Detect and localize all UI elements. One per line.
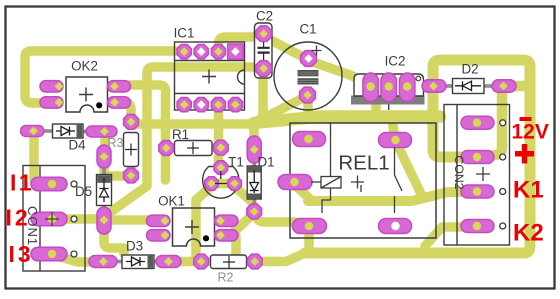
- svg-text:R2: R2: [218, 271, 234, 285]
- REL1 pad coil2: [278, 175, 312, 190]
- wire top-left L to IC1 pad1: [25, 51, 180, 103]
- wire OK2-TR elbow to R1 left vertical: [130, 85, 166, 180]
- wire IC2 tap stub: [371, 98, 381, 117]
- CON2 pad plus hole: [473, 153, 481, 161]
- OK2 pad5 hole: [110, 98, 119, 107]
- D1 band bottom: [248, 194, 261, 199]
- IC1 body: [175, 42, 245, 110]
- gray leads: [42, 86, 498, 262]
- T1 pad B hole: [217, 163, 226, 172]
- IC2 pad1 hole: [366, 82, 374, 90]
- R2 plus: [223, 256, 235, 268]
- C1 pad minus hole: [303, 91, 312, 100]
- OK2 pad6: [108, 81, 131, 92]
- T1 pad B: [214, 161, 228, 175]
- OK2 pad5: [108, 97, 131, 108]
- resistor R2 body: [211, 255, 247, 269]
- svg-text:CON2: CON2: [452, 155, 466, 189]
- connector CON2 box: [444, 105, 510, 246]
- relay REL1 box: [290, 123, 436, 238]
- svg-text:I2: I2: [6, 205, 31, 231]
- D1 pad top: [247, 136, 261, 163]
- CON2 mount holes: [500, 120, 506, 229]
- D3 pad anode: [89, 256, 117, 268]
- CON1 pad I3: [31, 247, 67, 261]
- optocoupler OK2 body: [66, 77, 108, 112]
- diode D5 body: [97, 175, 112, 206]
- REL1 pad coil2 hole: [290, 178, 298, 186]
- cathode bands: [77, 125, 261, 268]
- REL1 pad coil1: [293, 132, 326, 147]
- C2 capacitor symbol: [258, 48, 270, 53]
- OK1 pad6 hole: [216, 216, 225, 225]
- REL1 pad common: [379, 133, 412, 148]
- IC1 pad7: [211, 98, 225, 112]
- wire T1 left down through OK1 to R2 left: [196, 186, 212, 258]
- wire D4 left down to I1 pad: [34, 133, 48, 184]
- svg-text:D2: D2: [461, 62, 478, 77]
- IC2 pad3 hole: [403, 82, 411, 90]
- wire D3 right to R2 left: [172, 257, 198, 267]
- diode D4 body: [53, 124, 84, 138]
- D2 pad cathode: [492, 80, 516, 93]
- CON2 pad K2: [461, 220, 494, 233]
- C1 plus: [312, 46, 322, 56]
- D4 symbol: [56, 130, 75, 132]
- svg-text:R1: R1: [172, 127, 189, 142]
- labels black: [25, 9, 479, 254]
- OK2 pad3 hole: [55, 98, 64, 107]
- D3 symbol: [126, 261, 145, 263]
- wire relay BL stub down: [304, 229, 314, 249]
- R1 plus: [187, 142, 199, 154]
- CON1 mount holes: [71, 181, 77, 257]
- IC2 body: [354, 74, 424, 96]
- OK1 pad5 hole: [216, 231, 225, 240]
- relay plus: [351, 176, 364, 189]
- svg-text:OK1: OK1: [158, 194, 185, 209]
- R3 pad bottom: [124, 168, 139, 183]
- C2 pad top: [256, 26, 272, 42]
- wire T1 base bar: [214, 179, 231, 189]
- IC2 pad3: [399, 73, 415, 102]
- REL1 pad NO: [379, 219, 412, 234]
- svg-text:12V: 12V: [512, 121, 549, 144]
- wire OK1 BR down to R2 body: [231, 236, 241, 256]
- svg-text:C1: C1: [299, 22, 316, 37]
- diode D4 leads: [42, 129, 53, 133]
- white bodies: [53, 23, 485, 269]
- D3 pad cathode: [156, 256, 181, 268]
- OK1 plus: [185, 220, 199, 234]
- wire bottom rail up right side U-shape to x433 and CON2 pad2: [305, 60, 530, 253]
- labels red: [6, 121, 549, 268]
- OK2 pad4: [40, 81, 63, 92]
- IC1 pad6: [194, 98, 208, 112]
- IC1 pad6 hole: [197, 100, 206, 109]
- wire T1 right to D1 bottom: [234, 186, 254, 208]
- D3 band: [148, 256, 154, 268]
- wire IC1 pad3 up to C2 top: [219, 34, 262, 51]
- wire nodeX to D1 top: [251, 124, 254, 142]
- svg-text:I3: I3: [9, 241, 34, 267]
- OK1 pad5: [215, 230, 239, 241]
- D4 band: [77, 125, 83, 138]
- OK1 pad1: [147, 215, 171, 226]
- wire C2 top to C1 top diagonal: [267, 38, 303, 57]
- REL1 pad coil1 hole: [304, 135, 312, 143]
- CON2 plus: [476, 167, 490, 181]
- svg-text:IC2: IC2: [385, 54, 406, 69]
- diode D1 body: [247, 166, 261, 199]
- OK2 pad3: [40, 97, 63, 108]
- label minus bar: [520, 117, 532, 121]
- C2 pad top hole: [259, 29, 268, 38]
- svg-text:R3: R3: [108, 136, 124, 150]
- IC1 pad4 square: [228, 44, 243, 59]
- C2 pad bottom: [256, 61, 272, 77]
- wire C2bottom down to nodeX: [251, 70, 263, 124]
- IC1 pad4 hole: [231, 47, 240, 56]
- wire relay TR stub: [392, 120, 395, 135]
- CON1 pad I1: [31, 177, 67, 191]
- R1 pad left: [159, 141, 174, 156]
- T1 pad C: [228, 177, 242, 191]
- D3 pad anode hole: [99, 257, 108, 266]
- CON2 pad plus: [461, 151, 494, 164]
- T1 pad E hole: [207, 179, 216, 188]
- CON2 pad minus hole: [473, 119, 481, 127]
- diode D2 leads: [440, 84, 454, 88]
- IC2 pad1: [363, 73, 379, 102]
- wire net12V big horizontal: [254, 117, 440, 124]
- REL1 pad common hole: [391, 136, 399, 144]
- D2 pad cathode hole: [499, 82, 508, 91]
- IC2 pad2: [381, 73, 397, 102]
- transistor T1 outline: [203, 167, 239, 199]
- CON1 pad I1 hole: [48, 180, 56, 188]
- connector CON1 box: [23, 166, 85, 272]
- R3 pad top: [124, 114, 139, 129]
- T1 symbol lines: [215, 171, 227, 184]
- wire R3top to nodeX horizontal: [133, 119, 250, 129]
- CON2 pad K2 hole: [473, 222, 481, 230]
- svg-text:I1: I1: [10, 170, 34, 196]
- svg-text:OK2: OK2: [71, 59, 98, 74]
- wire D5 bottom to OK1 TL: [108, 215, 150, 225]
- svg-text:K2: K2: [513, 220, 544, 247]
- R1 pad right: [213, 140, 228, 155]
- wire D5 top to R3 bottom: [104, 160, 128, 176]
- IC1 pad8: [228, 98, 242, 112]
- IC2 pin stub: [388, 105, 390, 111]
- D5 pad cathode: [97, 145, 111, 168]
- D1 pad top hole: [250, 145, 259, 154]
- OK2 pin1 dot: [96, 102, 102, 108]
- svg-text:IC1: IC1: [174, 26, 195, 41]
- wire IC1 pad3 down through R1 right to T1 top: [214, 104, 224, 168]
- R3 plus: [125, 144, 137, 156]
- IC1 pad2 hole: [197, 47, 206, 56]
- OK1 pin1 dot: [203, 235, 209, 241]
- wire CON2 K2 to bottom rail: [425, 227, 462, 246]
- IC2 heatsink tab: [351, 96, 425, 105]
- relay switch: [395, 147, 403, 213]
- OK2 plus: [79, 88, 93, 102]
- CON1 pad I2 hole: [48, 215, 56, 223]
- R3 pad bottom hole: [127, 171, 136, 180]
- CON1 pad I2: [31, 212, 67, 226]
- T1 pad C hole: [230, 179, 239, 188]
- resistor R1 body: [175, 141, 213, 156]
- OK1 pad6: [215, 215, 239, 226]
- OK1 pad1 hole: [161, 216, 170, 225]
- D2 pad anode: [422, 80, 446, 93]
- D4 pad cathode hole: [100, 127, 109, 136]
- REL1 pad NC hole: [305, 222, 313, 230]
- OK1 pad2 hole: [161, 231, 170, 240]
- wire C1 bottom stub: [303, 97, 313, 115]
- relay coil to NC line: [322, 188, 331, 213]
- svg-text:K1: K1: [513, 177, 544, 204]
- D5 band: [97, 175, 111, 183]
- CON2 pad minus: [461, 116, 494, 129]
- diode D3 leads: [110, 260, 123, 264]
- CON2 pad K1: [461, 185, 494, 198]
- OK2 pad4 hole: [55, 82, 64, 91]
- R2 pad right hole: [251, 257, 260, 266]
- wire D2 right down to CON2 pad2 plus: [484, 92, 502, 157]
- CON2 pad K1 hole: [473, 187, 481, 195]
- D1 symbol: [253, 170, 255, 193]
- IC2 pad2 hole: [385, 82, 393, 90]
- IC1 pad3 hole: [214, 47, 223, 56]
- D1 band top: [248, 167, 261, 173]
- wire REL1 coil2 diagonal to K1 run: [296, 186, 310, 199]
- wire IC1 underpass to C2 bottom: [147, 67, 256, 80]
- IC1 pad1: [177, 45, 191, 59]
- C1 plates: [298, 70, 319, 85]
- svg-text:T1: T1: [228, 155, 244, 170]
- wire D2 right to rail: [508, 81, 526, 92]
- IC1 pad7 hole: [214, 100, 223, 109]
- D4 pad cathode: [86, 126, 117, 137]
- svg-text:D5: D5: [75, 184, 92, 199]
- svg-text:D1: D1: [257, 155, 274, 170]
- wire OK2-BR to R3 top: [116, 102, 131, 120]
- resistor R3 body: [124, 133, 139, 167]
- wire I3 to D3 left: [57, 256, 98, 262]
- relay middle pin line: [360, 185, 362, 192]
- wire D4 right to D5 top: [100, 134, 110, 154]
- labels gray: [108, 136, 234, 285]
- IC1 pad5: [177, 98, 191, 112]
- wire R2 right to bottom rail: [258, 253, 305, 262]
- IC1 pad8 hole: [231, 100, 240, 109]
- C2 pad bottom hole: [259, 64, 268, 73]
- wire nodeX diagonal to C1 bottom: [258, 98, 303, 121]
- OK2 pad6 hole: [110, 82, 119, 91]
- R1 pad right hole: [217, 143, 226, 152]
- wire D1 bottom to REL1 NC pad: [256, 214, 295, 222]
- OK1 pad2: [147, 230, 171, 241]
- diode D1 leads: [252, 157, 256, 168]
- R2 pad right: [247, 254, 262, 269]
- REL1 pad NC: [293, 219, 327, 234]
- R1 pad left hole: [162, 144, 171, 153]
- D3 pad cathode hole: [164, 257, 173, 266]
- wire REL1 common diagonal down to K1 run: [398, 146, 423, 198]
- label plus sign: [515, 151, 534, 157]
- D1 pad bottom: [247, 204, 262, 219]
- IC1 plus: [202, 70, 216, 84]
- D5 pad anode: [97, 207, 111, 234]
- svg-text:REL1: REL1: [338, 152, 389, 175]
- D4 pad anode hole: [29, 127, 38, 136]
- R2 pad left: [194, 254, 209, 269]
- diode symbols: [56, 81, 481, 266]
- wire D1 bottom to OK1 BR: [234, 215, 252, 232]
- IC1 pad1 hole: [180, 47, 189, 56]
- svg-text:D3: D3: [126, 239, 143, 254]
- CON1 pad I3 hole: [48, 250, 56, 258]
- CON1 pad2 cross: [45, 212, 59, 226]
- R3 pad top hole: [127, 118, 136, 127]
- relay coil symbol: [311, 123, 402, 213]
- D5 pad cathode hole: [100, 152, 109, 161]
- REL1 pad NO hole: [391, 222, 399, 230]
- wire IC2 pad3 to D2 left: [408, 81, 428, 91]
- R2 pad left hole: [197, 257, 206, 266]
- wire K1 horizontal run under relay: [308, 192, 462, 201]
- capacitor C2 body: [255, 23, 273, 78]
- D4 pad anode: [21, 126, 45, 137]
- svg-text:C2: C2: [256, 9, 273, 24]
- C1 pad plus hole: [304, 54, 313, 63]
- diode D5 leads: [102, 163, 106, 176]
- T1 pad E: [205, 177, 219, 191]
- diode D3 body: [122, 255, 154, 269]
- wire C1 top to IC2 pad1: [313, 62, 363, 81]
- IC1 pad5 hole: [180, 100, 189, 109]
- D2 symbol: [455, 85, 481, 87]
- C1 pad minus: [300, 87, 316, 103]
- wire S1 vertical down to D5 bottom: [112, 76, 147, 211]
- IC2 marker circle: [416, 76, 421, 81]
- diode D2 body: [453, 79, 485, 94]
- D2 pad anode hole: [429, 82, 438, 91]
- C1 pad plus: [301, 51, 317, 67]
- D1 pad bottom hole: [250, 207, 259, 216]
- wire I2 to D5 bottom: [58, 214, 97, 224]
- wire D5 bottom elbow down: [104, 227, 124, 254]
- svg-text:D4: D4: [68, 138, 86, 153]
- D5 symbol: [103, 178, 105, 202]
- optocoupler OK1 body: [173, 208, 215, 246]
- D5 pad anode hole: [100, 216, 109, 225]
- capacitor C1 circle: [274, 42, 342, 110]
- IC1 pad2: [194, 45, 208, 59]
- IC1 pad3: [211, 45, 225, 59]
